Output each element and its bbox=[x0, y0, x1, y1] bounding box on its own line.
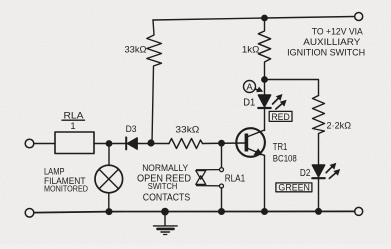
wire top rail bbox=[153, 17, 355, 21]
node bottom reed bbox=[219, 209, 225, 215]
svg-text:BC108: BC108 bbox=[273, 153, 297, 163]
svg-text:TO +12V VIA: TO +12V VIA bbox=[312, 27, 364, 38]
svg-text:GREEN: GREEN bbox=[278, 182, 310, 192]
svg-text:A: A bbox=[246, 82, 253, 93]
node bottom lamp bbox=[106, 209, 112, 215]
transistor Q1 TR1 circle bbox=[236, 128, 265, 157]
diode D3 (cathode bar left, triangle apex points left) bbox=[125, 137, 127, 149]
node bottom ground bbox=[162, 208, 168, 214]
relay coil RLA box bbox=[55, 132, 94, 154]
wire D1 to collector bbox=[264, 108, 266, 131]
ground symbol bbox=[164, 212, 166, 226]
terminal mid left bbox=[25, 139, 34, 148]
node junction mid (1k bottom) bbox=[262, 77, 267, 82]
node bottom D2 bbox=[316, 209, 322, 215]
resistor R3 2.2k (zigzag) bbox=[313, 96, 325, 165]
svg-text:SWITCH: SWITCH bbox=[148, 182, 178, 191]
svg-text:1: 1 bbox=[70, 121, 75, 131]
wire coil to node bbox=[94, 143, 126, 145]
label GREEN box bbox=[276, 183, 312, 192]
wire reed to bottom rail bbox=[221, 188, 223, 212]
svg-text:TR1: TR1 bbox=[273, 142, 288, 153]
wire branch to right column bbox=[265, 80, 319, 96]
transistor collector lead bbox=[248, 130, 265, 137]
svg-text:1kΩ: 1kΩ bbox=[242, 44, 260, 55]
wire 33k to base node bbox=[203, 142, 245, 145]
svg-text:D2: D2 bbox=[300, 168, 311, 179]
reed switch RLA1 contact bottom terminal bbox=[220, 184, 224, 188]
resistor R top-left 33k (zigzag) bbox=[147, 20, 162, 143]
node base junction bbox=[219, 141, 224, 146]
wire terminal to relay coil bbox=[34, 143, 55, 145]
terminal bottom right bbox=[355, 207, 363, 215]
svg-text:RED: RED bbox=[271, 112, 290, 122]
svg-text:D3: D3 bbox=[126, 124, 137, 135]
svg-text:NORMALLY: NORMALLY bbox=[142, 163, 188, 173]
reed switch RLA1 contact top terminal bbox=[220, 168, 224, 172]
svg-text:2·2kΩ: 2·2kΩ bbox=[327, 121, 352, 131]
wire D3 to 33k node bbox=[137, 143, 170, 145]
terminal top right bbox=[355, 13, 363, 21]
svg-text:AUXILLIARY: AUXILLIARY bbox=[303, 37, 361, 48]
svg-text:RLA: RLA bbox=[64, 110, 85, 121]
lamp (circle with X) bbox=[95, 165, 123, 193]
wire D1 anode bbox=[264, 80, 266, 96]
svg-text:IGNITION SWITCH: IGNITION SWITCH bbox=[287, 47, 365, 58]
svg-text:CONTACTS: CONTACTS bbox=[143, 191, 191, 203]
resistor R2 1k (zigzag) bbox=[258, 18, 270, 80]
resistor R4 33k horizontal (zigzag) bbox=[169, 139, 203, 149]
node junction top (1k top) bbox=[262, 15, 267, 20]
svg-text:MONITORED: MONITORED bbox=[44, 184, 88, 194]
node A arrow bbox=[256, 89, 260, 90]
wire D2 to bottom rail bbox=[318, 178, 320, 211]
transistor emitter lead bbox=[248, 149, 265, 156]
svg-text:33kΩ: 33kΩ bbox=[175, 124, 199, 135]
node A pointer circle bbox=[244, 81, 256, 93]
svg-text:D1: D1 bbox=[243, 98, 255, 109]
wire lamp branch bbox=[108, 144, 110, 166]
LED D1 emission arrows bbox=[273, 97, 280, 104]
node lamp junction bbox=[106, 141, 111, 146]
svg-text:33kΩ: 33kΩ bbox=[125, 45, 147, 56]
label RED box bbox=[269, 111, 292, 121]
node 33k junction bbox=[148, 140, 154, 146]
LED D2 bbox=[312, 165, 324, 177]
label RLA underline bbox=[62, 119, 85, 121]
wire emitter to bottom rail bbox=[264, 156, 266, 212]
transistor emitter arrowhead bbox=[254, 148, 263, 155]
wire bottom rail bbox=[34, 211, 355, 212]
transistor base bar bbox=[245, 134, 249, 152]
wire reed branch upper bbox=[221, 143, 223, 167]
reed switch blades (bowtie) bbox=[196, 171, 206, 180]
wire lamp to bottom rail bbox=[108, 193, 110, 212]
LED D2 emission arrows bbox=[326, 165, 333, 172]
LED D1 bbox=[258, 95, 270, 107]
svg-text:RLA1: RLA1 bbox=[225, 173, 246, 184]
node bottom emitter bbox=[262, 209, 268, 215]
terminal bottom left bbox=[25, 209, 34, 218]
